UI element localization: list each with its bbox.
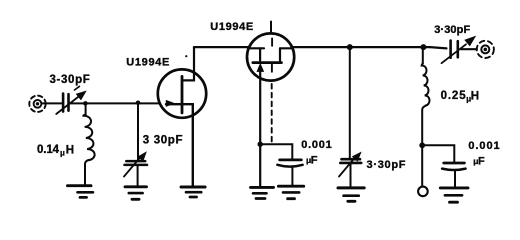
svg-text:0.25: 0.25 [441,90,467,102]
svg-text:0.001: 0.001 [468,140,499,152]
svg-text:μ: μ [60,148,65,157]
svg-text:0.001: 0.001 [301,139,332,151]
svg-text:3 30pF: 3 30pF [143,134,183,146]
svg-text:U1994E: U1994E [210,21,253,33]
svg-text:H: H [471,90,479,102]
svg-text:0.14: 0.14 [37,144,60,156]
svg-text:F: F [478,155,485,167]
svg-text:3·30pF: 3·30pF [434,24,470,36]
svg-text:3-30pF: 3-30pF [50,74,90,86]
svg-text:U1994E: U1994E [126,56,169,68]
svg-text:F: F [311,154,318,166]
svg-text:H: H [66,145,74,157]
svg-text:3·30pF: 3·30pF [367,159,406,171]
